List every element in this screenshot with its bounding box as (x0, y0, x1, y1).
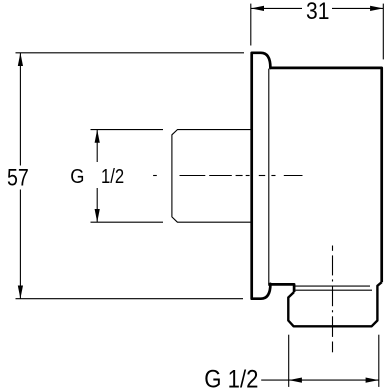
dim 57 arrow bottom (18, 286, 23, 299)
centerline horizontal (153, 175, 302, 177)
dim 57 extension bottom (16, 298, 244, 300)
dim 31 arrow left (251, 6, 264, 11)
inlet profile (172, 130, 251, 223)
flange outline (252, 53, 271, 299)
dim 57 arrow top (18, 53, 23, 66)
dim G1/2 bottom extension left (288, 335, 290, 387)
svg-text:57: 57 (7, 164, 29, 191)
dim 31 arrow right (370, 6, 383, 11)
svg-text:G 1/2: G 1/2 (204, 365, 258, 390)
body bottom edge (268, 284, 294, 292)
dim G1/2 bottom arrow left (289, 378, 302, 383)
svg-text:G: G (70, 166, 84, 188)
svg-text:31: 31 (306, 0, 329, 25)
dim G1/2 bottom leader and line (261, 379, 379, 381)
body top and right edges (270, 68, 382, 282)
thread relief line (295, 289, 372, 291)
thread washer line (295, 285, 370, 287)
dim G1/2 inner extension top (91, 129, 164, 131)
dim G1/2 inner arrow top (95, 130, 100, 143)
flange right edge (268, 69, 270, 284)
dim G1/2 inner extension bottom (91, 221, 164, 223)
dim G1/2 bottom arrow right (366, 378, 379, 383)
dim G1/2 bottom extension right (378, 335, 380, 387)
dim 57 extension top (16, 52, 245, 54)
dim G1/2 inner line (96, 130, 98, 162)
svg-text:1/2: 1/2 (101, 166, 124, 188)
outlet nut (288, 282, 381, 326)
dim 31 line (251, 7, 302, 9)
dim G1/2 inner arrow bottom (95, 209, 100, 222)
dim 57 line (19, 53, 21, 166)
centerline vertical (332, 246, 334, 353)
dim 31 extension left (250, 4, 252, 46)
dim 31 extension right (382, 4, 384, 60)
